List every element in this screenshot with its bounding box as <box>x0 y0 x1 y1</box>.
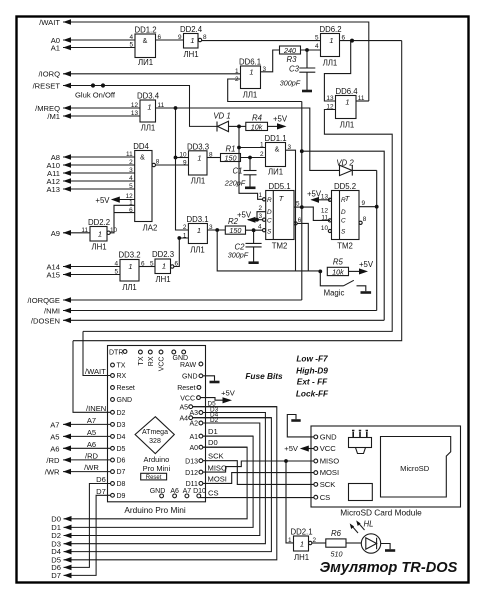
junction R2 right C2 <box>252 228 256 232</box>
svg-text:DD2.4: DD2.4 <box>180 25 203 34</box>
svg-text:A4: A4 <box>179 415 188 422</box>
svg-text:1: 1 <box>98 229 102 238</box>
svg-text:/RD: /RD <box>46 456 60 465</box>
node /NMI <box>63 310 377 312</box>
svg-text:&: & <box>275 147 280 154</box>
svg-text:9: 9 <box>178 34 182 41</box>
junction DD5.2 Q9 VD2 <box>375 205 379 209</box>
wire A1 row <box>203 435 253 437</box>
junction MISO <box>284 459 288 463</box>
LED HL <box>361 534 390 553</box>
node D3 <box>64 413 266 544</box>
svg-text:Fuse Bits: Fuse Bits <box>245 371 283 381</box>
svg-text:DD2.3: DD2.3 <box>152 250 174 259</box>
svg-text:/DOSEN: /DOSEN <box>31 316 60 325</box>
svg-text:1: 1 <box>300 539 304 548</box>
node /RD <box>63 459 111 461</box>
svg-text:/M1: /M1 <box>47 112 60 121</box>
svg-text:D9: D9 <box>117 493 126 500</box>
svg-text:150: 150 <box>229 226 241 235</box>
switch Magic <box>320 271 371 292</box>
svg-text:HL: HL <box>364 520 374 529</box>
svg-text:+5V: +5V <box>95 196 110 205</box>
svg-text:ЛИ1: ЛИ1 <box>268 168 283 177</box>
junction R5 left <box>318 270 322 274</box>
svg-text:/NMI: /NMI <box>44 307 60 316</box>
svg-text:MISO: MISO <box>320 457 340 466</box>
svg-text:3: 3 <box>209 224 213 231</box>
wire DOSEN branch <box>302 151 384 320</box>
resistor R4 <box>239 122 277 130</box>
svg-text:DD6.1: DD6.1 <box>239 58 261 67</box>
svg-text:10k: 10k <box>332 267 344 276</box>
svg-text:GND: GND <box>320 433 337 442</box>
wire D13 SCK <box>203 461 314 485</box>
svg-text:A13: A13 <box>46 185 60 194</box>
svg-text:13: 13 <box>131 110 139 117</box>
svg-text:Lock-FF: Lock-FF <box>296 388 329 398</box>
svg-text:DD3.3: DD3.3 <box>187 142 209 151</box>
svg-text:10k: 10k <box>251 122 263 131</box>
svg-text:D1: D1 <box>208 427 218 436</box>
svg-text:6: 6 <box>129 207 133 214</box>
flip-flop DD5.2 <box>328 191 362 240</box>
svg-text:9: 9 <box>183 160 187 167</box>
wire module VCC <box>305 448 314 450</box>
svg-text:CS: CS <box>320 493 331 502</box>
svg-text:R3: R3 <box>287 55 298 64</box>
svg-text:240: 240 <box>283 46 296 55</box>
svg-text:1: 1 <box>260 142 264 149</box>
wire R1 to DD1.1 pin2 <box>241 157 266 159</box>
svg-text:8: 8 <box>203 34 207 41</box>
svg-text:ЛН1: ЛН1 <box>91 243 106 252</box>
svg-text:A7: A7 <box>183 488 192 495</box>
junction +5V D C DD5.1 <box>255 218 259 222</box>
gate DD6.1 <box>241 66 261 89</box>
svg-text:2: 2 <box>313 537 317 544</box>
svg-text:11: 11 <box>358 95 365 102</box>
svg-text:10: 10 <box>321 225 329 232</box>
pin circles MicroSD module <box>314 435 318 499</box>
svg-text:12: 12 <box>326 104 334 111</box>
svg-text:D12: D12 <box>185 470 198 477</box>
svg-text:1: 1 <box>128 262 132 271</box>
wire DD6.2 out to DD6.4 pin13 <box>324 41 350 101</box>
svg-text:10: 10 <box>110 227 118 234</box>
svg-text:Arduino: Arduino <box>143 455 169 464</box>
svg-text:5: 5 <box>296 201 300 208</box>
svg-text:11: 11 <box>126 151 133 158</box>
node A15 <box>63 274 120 276</box>
wire DD6.1 pin2 <box>228 79 302 102</box>
junction VD1 R4 <box>237 125 241 129</box>
svg-text:/INEN: /INEN <box>86 404 106 413</box>
wire /INEN net <box>73 41 402 341</box>
svg-text:ЛН1: ЛН1 <box>155 275 170 284</box>
pin circles Arduino left <box>111 363 115 497</box>
wire +5V to DD5.2 R <box>312 199 330 201</box>
svg-text:12: 12 <box>131 102 139 109</box>
svg-text:8: 8 <box>209 152 213 159</box>
svg-text:A5: A5 <box>50 432 59 441</box>
svg-text:/IORQ: /IORQ <box>38 70 60 79</box>
node D7 <box>64 495 111 575</box>
wire DD3.1 out drop to R5 line <box>217 230 320 271</box>
svg-text:A6: A6 <box>170 488 179 495</box>
wire DD2.4 out to DD6.2 pin5 <box>202 40 321 42</box>
node A9 <box>63 232 90 234</box>
arrows left column <box>63 19 71 25</box>
svg-text:D6: D6 <box>96 475 106 484</box>
svg-text:DD3.4: DD3.4 <box>137 92 160 101</box>
svg-text:6: 6 <box>175 261 179 268</box>
svg-text:Pro Mini: Pro Mini <box>143 464 171 473</box>
node A1 <box>63 47 135 49</box>
junction DD5.1 Q5 <box>300 205 304 209</box>
svg-text:9: 9 <box>362 200 366 207</box>
wire DD2.3 out up to DD3.1 pin1 <box>174 238 189 267</box>
svg-text:VD 1: VD 1 <box>213 112 230 121</box>
svg-text:5: 5 <box>129 42 133 49</box>
svg-text:Reset: Reset <box>117 385 135 392</box>
node D6 <box>64 484 111 568</box>
wire DD2.1 out to R6 <box>312 542 326 544</box>
svg-text:4: 4 <box>315 43 319 50</box>
svg-text:6: 6 <box>141 261 145 268</box>
svg-text:High-D9: High-D9 <box>296 365 328 375</box>
wire DD1.2 out to DD2.4 in <box>156 39 184 41</box>
node /WR <box>63 471 111 473</box>
svg-text:ЛН1: ЛН1 <box>183 50 198 59</box>
wire DD3.4 out <box>156 108 340 170</box>
wire stub to DD1.1 pin1 <box>239 147 266 149</box>
svg-text:1: 1 <box>129 200 133 207</box>
component ATmega328 diamond <box>135 417 174 454</box>
svg-text:D8: D8 <box>117 481 126 488</box>
svg-text:ТМ2: ТМ2 <box>272 242 288 251</box>
svg-text:T: T <box>345 194 351 203</box>
svg-text:328: 328 <box>149 438 161 445</box>
wire DD1.1 out3 down <box>286 150 296 271</box>
svg-text:3: 3 <box>288 144 292 151</box>
svg-text:D13: D13 <box>185 458 198 465</box>
resistor R2 <box>225 226 245 234</box>
svg-text:Arduino Pro Mini: Arduino Pro Mini <box>124 505 185 515</box>
svg-text:D10: D10 <box>193 488 206 495</box>
gate DD3.4 <box>140 100 156 122</box>
svg-text:CS: CS <box>208 488 219 497</box>
wire RX net <box>83 110 392 332</box>
node /M1 <box>63 115 140 117</box>
resistor R1 <box>221 154 241 162</box>
svg-text:DTR: DTR <box>109 349 123 356</box>
svg-text:+5V: +5V <box>221 389 236 398</box>
gate DD2.4 <box>184 34 202 49</box>
power +5V arrow DD4 pin12 <box>111 197 120 203</box>
svg-text:R5: R5 <box>333 257 344 266</box>
svg-text:DD1.1: DD1.1 <box>264 134 286 143</box>
svg-text:2: 2 <box>183 224 187 231</box>
junction R1 C1 <box>248 156 252 160</box>
wire Arduino GND to ground <box>203 376 215 381</box>
module Arduino Pro Mini box <box>108 346 206 502</box>
svg-text:ЛН1: ЛН1 <box>294 553 309 562</box>
wire DD3.4 out branch down <box>175 108 177 158</box>
node A6 <box>63 447 111 449</box>
svg-text:DD6.4: DD6.4 <box>335 87 358 96</box>
wire DD3.2 out to DD2.3 <box>139 266 155 268</box>
svg-text:10: 10 <box>179 152 187 159</box>
svg-text:C1: C1 <box>233 167 243 176</box>
wire DD6.4 out11 to /WAIT <box>356 100 369 102</box>
svg-text:/WR: /WR <box>45 468 60 477</box>
svg-text:4: 4 <box>258 224 262 231</box>
pin circle DTR <box>123 350 127 354</box>
svg-text:5: 5 <box>114 269 118 276</box>
svg-text:2: 2 <box>258 205 262 212</box>
svg-text:MicroSD Card Module: MicroSD Card Module <box>340 508 422 518</box>
wire DD3.3 pin10 <box>176 157 189 159</box>
svg-text:SCK: SCK <box>208 451 224 460</box>
svg-text:GND: GND <box>173 355 189 362</box>
svg-text:VD 2: VD 2 <box>336 159 354 168</box>
svg-text:TX: TX <box>138 356 145 365</box>
button Reset <box>141 473 167 480</box>
svg-text:Эмулятор TR-DOS: Эмулятор TR-DOS <box>320 560 458 576</box>
wire R3 to DD6.2 pin4 <box>301 49 321 51</box>
svg-text:150: 150 <box>225 153 237 162</box>
svg-text:/WR: /WR <box>84 463 99 472</box>
svg-text:TX: TX <box>117 363 126 370</box>
node A13 <box>63 188 135 190</box>
svg-text:&: & <box>140 155 145 162</box>
svg-text:A3: A3 <box>189 410 198 417</box>
power +5V arrow after R4 <box>277 123 287 129</box>
svg-text:11: 11 <box>321 214 328 221</box>
svg-text:R1: R1 <box>226 144 236 153</box>
svg-text:5: 5 <box>129 183 133 190</box>
svg-text:DD3.1: DD3.1 <box>186 215 208 224</box>
wire DD3.1 out3 to R2 <box>207 229 225 231</box>
wire VD1 junction down to DD1.1 pin1 <box>239 126 263 199</box>
svg-text:RX: RX <box>148 356 155 366</box>
svg-text:6: 6 <box>158 34 162 41</box>
node D1 <box>64 436 254 527</box>
junction DD3.3 pin10 <box>174 156 178 160</box>
wire VD2 net vertical to /NMI <box>376 170 378 310</box>
svg-text:R4: R4 <box>252 113 263 122</box>
icon LED arrows <box>350 520 365 533</box>
svg-text:3: 3 <box>263 66 267 73</box>
capacitor C1 <box>244 158 257 188</box>
svg-text:MISO: MISO <box>208 463 228 472</box>
wire DD2.2 out to DD4 pins 1,6 <box>110 205 134 233</box>
node A5 <box>63 435 111 437</box>
svg-text:Ext - FF: Ext - FF <box>297 377 328 387</box>
svg-text:D5: D5 <box>117 446 126 453</box>
diode VD2 <box>340 165 377 175</box>
junction DD3.4 out branch <box>174 106 178 110</box>
svg-text:&: & <box>143 38 148 45</box>
node A11 <box>63 172 135 174</box>
svg-text:D7: D7 <box>96 487 106 496</box>
svg-text:A5: A5 <box>179 404 188 411</box>
gate DD3.2 <box>120 260 139 282</box>
wire MISO to DD2.1 <box>286 461 294 543</box>
svg-text:DD1.2: DD1.2 <box>134 26 156 35</box>
svg-text:GND: GND <box>117 397 133 404</box>
svg-text:3: 3 <box>258 213 262 220</box>
svg-text:GND: GND <box>182 373 198 380</box>
svg-text:ЛЛ1: ЛЛ1 <box>340 121 355 130</box>
svg-text:D2: D2 <box>117 410 126 417</box>
svg-text:D6: D6 <box>117 458 126 465</box>
power +5V arrow DD5.1 <box>247 217 256 223</box>
svg-text:D: D <box>341 209 346 216</box>
wire A2 row <box>203 422 260 424</box>
svg-text:A6: A6 <box>87 440 96 449</box>
svg-text:Low -F7: Low -F7 <box>296 353 328 363</box>
node A14 <box>63 266 120 268</box>
node /RESET <box>63 86 217 127</box>
svg-text:+5V: +5V <box>284 444 299 453</box>
svg-text:6: 6 <box>342 35 346 42</box>
svg-text:4: 4 <box>129 175 133 182</box>
svg-text:A1: A1 <box>51 44 60 53</box>
junction R3 C3 <box>305 48 309 52</box>
svg-text:220pF: 220pF <box>224 179 246 188</box>
wire DD6.1 out3 to R3 <box>261 50 280 72</box>
svg-text:8: 8 <box>363 216 367 223</box>
wire A3 row <box>203 412 266 414</box>
node D0 <box>64 447 248 519</box>
svg-text:ЛЛ1: ЛЛ1 <box>191 177 206 186</box>
svg-text:DD5.1: DD5.1 <box>268 182 290 191</box>
wire DD5.2 C jog <box>302 207 330 220</box>
gate DD3.1 <box>188 224 207 244</box>
svg-text:A9: A9 <box>51 229 60 238</box>
svg-text:ЛЛ1: ЛЛ1 <box>122 283 137 292</box>
svg-text:Reset: Reset <box>177 385 195 392</box>
resistor R3 <box>280 46 301 54</box>
svg-text:A2: A2 <box>189 421 198 428</box>
svg-text:/IORQGE: /IORQGE <box>28 296 61 305</box>
wire DD4 out8 to DD3.3 pin9 <box>156 164 189 166</box>
node A8 <box>63 156 135 158</box>
junction DD1.1 pin1 <box>237 146 241 150</box>
gate DD6.2 <box>321 34 340 57</box>
svg-text:/RD: /RD <box>85 452 99 461</box>
svg-text:/WAIT: /WAIT <box>39 18 60 27</box>
svg-text:ЛЛ1: ЛЛ1 <box>141 124 156 133</box>
svg-text:RAW: RAW <box>180 362 196 369</box>
module MicroSD Card box <box>311 426 461 507</box>
svg-text:ATmega: ATmega <box>142 429 168 436</box>
svg-text:C: C <box>341 218 346 225</box>
svg-text:300pF: 300pF <box>228 251 249 260</box>
node /WAIT <box>63 22 369 101</box>
wire stub DD4 pin6 <box>114 212 135 214</box>
svg-text:VCC: VCC <box>180 395 195 402</box>
svg-text:1: 1 <box>190 36 194 45</box>
svg-text:13: 13 <box>326 95 334 102</box>
node A12 <box>63 180 135 182</box>
power +5V arrow DD5.2 R <box>310 197 319 203</box>
diode VD1 <box>217 121 239 131</box>
node A10 <box>63 164 135 166</box>
svg-text:1: 1 <box>162 262 166 271</box>
gate DD1.2 <box>135 34 156 58</box>
junction Gluk dot 1 <box>91 83 95 87</box>
svg-text:GND: GND <box>150 488 166 495</box>
gate DD2.1 <box>294 536 312 551</box>
gate DD3.3 <box>189 151 208 175</box>
wire +5V to DD5.1 D and C <box>248 219 263 221</box>
wire DD5.1 Q5 out <box>294 206 302 208</box>
power +5V arrow VCC <box>223 397 233 403</box>
svg-text:8: 8 <box>156 158 160 165</box>
svg-text:DD2.1: DD2.1 <box>290 528 312 537</box>
svg-text:A15: A15 <box>46 271 60 280</box>
ground symbol LED <box>385 549 395 552</box>
pin circle RAW <box>199 362 203 366</box>
icon microSD card <box>381 437 451 498</box>
svg-text:/RESET: /RESET <box>33 81 61 90</box>
capacitor C3 <box>299 50 315 91</box>
junction DOSEN branch <box>300 149 304 153</box>
svg-text:VCC: VCC <box>320 444 337 453</box>
svg-text:4: 4 <box>114 261 118 268</box>
wire DD5.1 pin6 to R5 line <box>297 223 308 271</box>
svg-text:A7: A7 <box>87 416 96 425</box>
svg-text:MOSI: MOSI <box>208 474 227 483</box>
node /MREQ <box>63 107 140 109</box>
svg-text:ЛЛ1: ЛЛ1 <box>243 91 258 100</box>
svg-text:DD2.2: DD2.2 <box>88 218 110 227</box>
pin circles Arduino bottom <box>160 494 201 498</box>
node A0 <box>63 39 135 41</box>
svg-text:MicroSD: MicroSD <box>400 464 430 473</box>
svg-text:S: S <box>341 228 346 235</box>
svg-text:/WAIT: /WAIT <box>85 367 106 376</box>
svg-text:+5V: +5V <box>359 260 374 269</box>
wire A4 row <box>193 417 272 419</box>
svg-text:1: 1 <box>345 98 349 107</box>
wire D11 MOSI <box>203 473 314 484</box>
svg-text:VCC: VCC <box>159 357 166 372</box>
resistor R6 <box>326 539 362 547</box>
svg-text:D0: D0 <box>208 438 218 447</box>
svg-text:D3: D3 <box>117 422 126 429</box>
svg-text:A6: A6 <box>50 444 59 453</box>
svg-text:+5V: +5V <box>273 115 288 124</box>
node /DOSEN <box>63 319 384 321</box>
gate DD2.2 <box>90 227 110 242</box>
gate DD6.4 <box>336 96 357 119</box>
svg-text:D4: D4 <box>117 434 126 441</box>
gate DD4 <box>135 151 156 222</box>
pin circles Arduino top <box>139 350 186 354</box>
gate DD2.3 <box>155 259 174 274</box>
svg-text:13: 13 <box>321 194 329 201</box>
svg-text:D2: D2 <box>210 417 219 424</box>
svg-text:S: S <box>267 228 272 235</box>
svg-text:1: 1 <box>197 154 201 163</box>
svg-text:11: 11 <box>81 227 88 234</box>
svg-text:+5V: +5V <box>307 189 322 198</box>
wire /INEN drop <box>73 341 111 413</box>
